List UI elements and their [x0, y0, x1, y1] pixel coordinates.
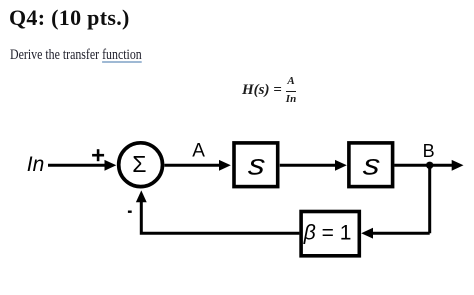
wire block S2 to output through node B	[394, 164, 452, 167]
svg-text:B: B	[423, 141, 435, 161]
block beta feedback gain	[301, 212, 359, 256]
arrowhead into block S1	[219, 160, 231, 171]
wire feedback left segment from beta block	[141, 201, 299, 234]
svg-text:Σ: Σ	[132, 151, 146, 177]
block S1	[234, 143, 278, 187]
svg-text:β = 1: β = 1	[303, 221, 352, 244]
arrowhead into summing junction	[105, 160, 117, 171]
arrowhead output	[452, 160, 464, 171]
arrowhead feedback into summing junction	[136, 190, 147, 202]
wire summing junction to block S1	[164, 164, 220, 167]
arrowhead into beta block	[361, 228, 373, 239]
block S2	[349, 143, 393, 187]
minus sign at summing junction	[128, 210, 132, 212]
arrowhead into block S2	[335, 160, 347, 171]
formula H(s) = A/In	[242, 76, 296, 105]
wire feedback right segment into beta block	[373, 232, 430, 235]
wire node B down	[428, 165, 431, 233]
title	[9, 5, 130, 31]
wire block S1 to block S2	[280, 164, 337, 167]
wire In to summing junction	[48, 164, 106, 167]
subtitle	[10, 47, 142, 64]
svg-text:A: A	[192, 141, 205, 162]
plus sign at summing junction	[92, 149, 104, 161]
summing junction U1	[119, 143, 163, 187]
node B junction dot	[426, 162, 433, 169]
svg-text:In: In	[27, 153, 45, 176]
